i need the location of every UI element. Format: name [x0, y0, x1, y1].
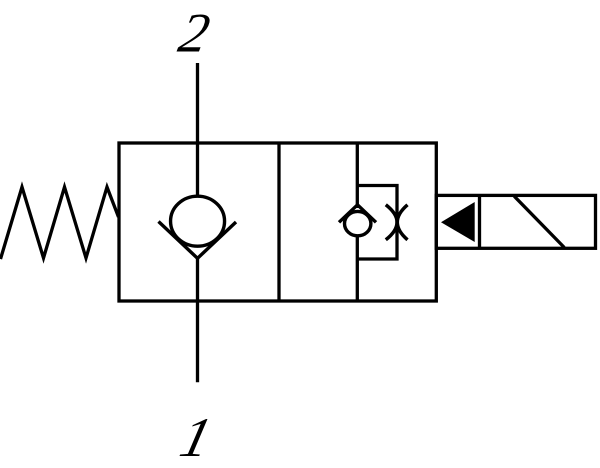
wire: body divider 2 (lower segment)	[356, 236, 359, 301]
solenoid arrow (filled triangle)	[441, 202, 475, 242]
valve body (main envelope)	[119, 143, 436, 301]
wire: port 1 vertical line	[196, 258, 199, 382]
wire: body divider 1	[277, 143, 280, 301]
throttle arc right	[397, 205, 407, 240]
solenoid box	[436, 195, 595, 248]
svg-text:1: 1	[174, 407, 217, 468]
pilot box (top, right, bottom edges)	[357, 186, 397, 260]
wire: port 2 vertical line	[196, 63, 199, 197]
check valve V1 ball	[171, 196, 225, 246]
pilot check valve seat (chevron)	[339, 205, 376, 223]
svg-text:2: 2	[174, 3, 215, 64]
solenoid divider	[478, 195, 481, 248]
throttle arc left	[386, 205, 397, 240]
wire: body divider 2 (upper segment)	[356, 143, 359, 208]
pilot check valve ball	[345, 211, 371, 235]
solenoid diagonal	[514, 196, 564, 247]
spring	[1, 187, 119, 259]
check valve V1 seat	[159, 222, 237, 259]
